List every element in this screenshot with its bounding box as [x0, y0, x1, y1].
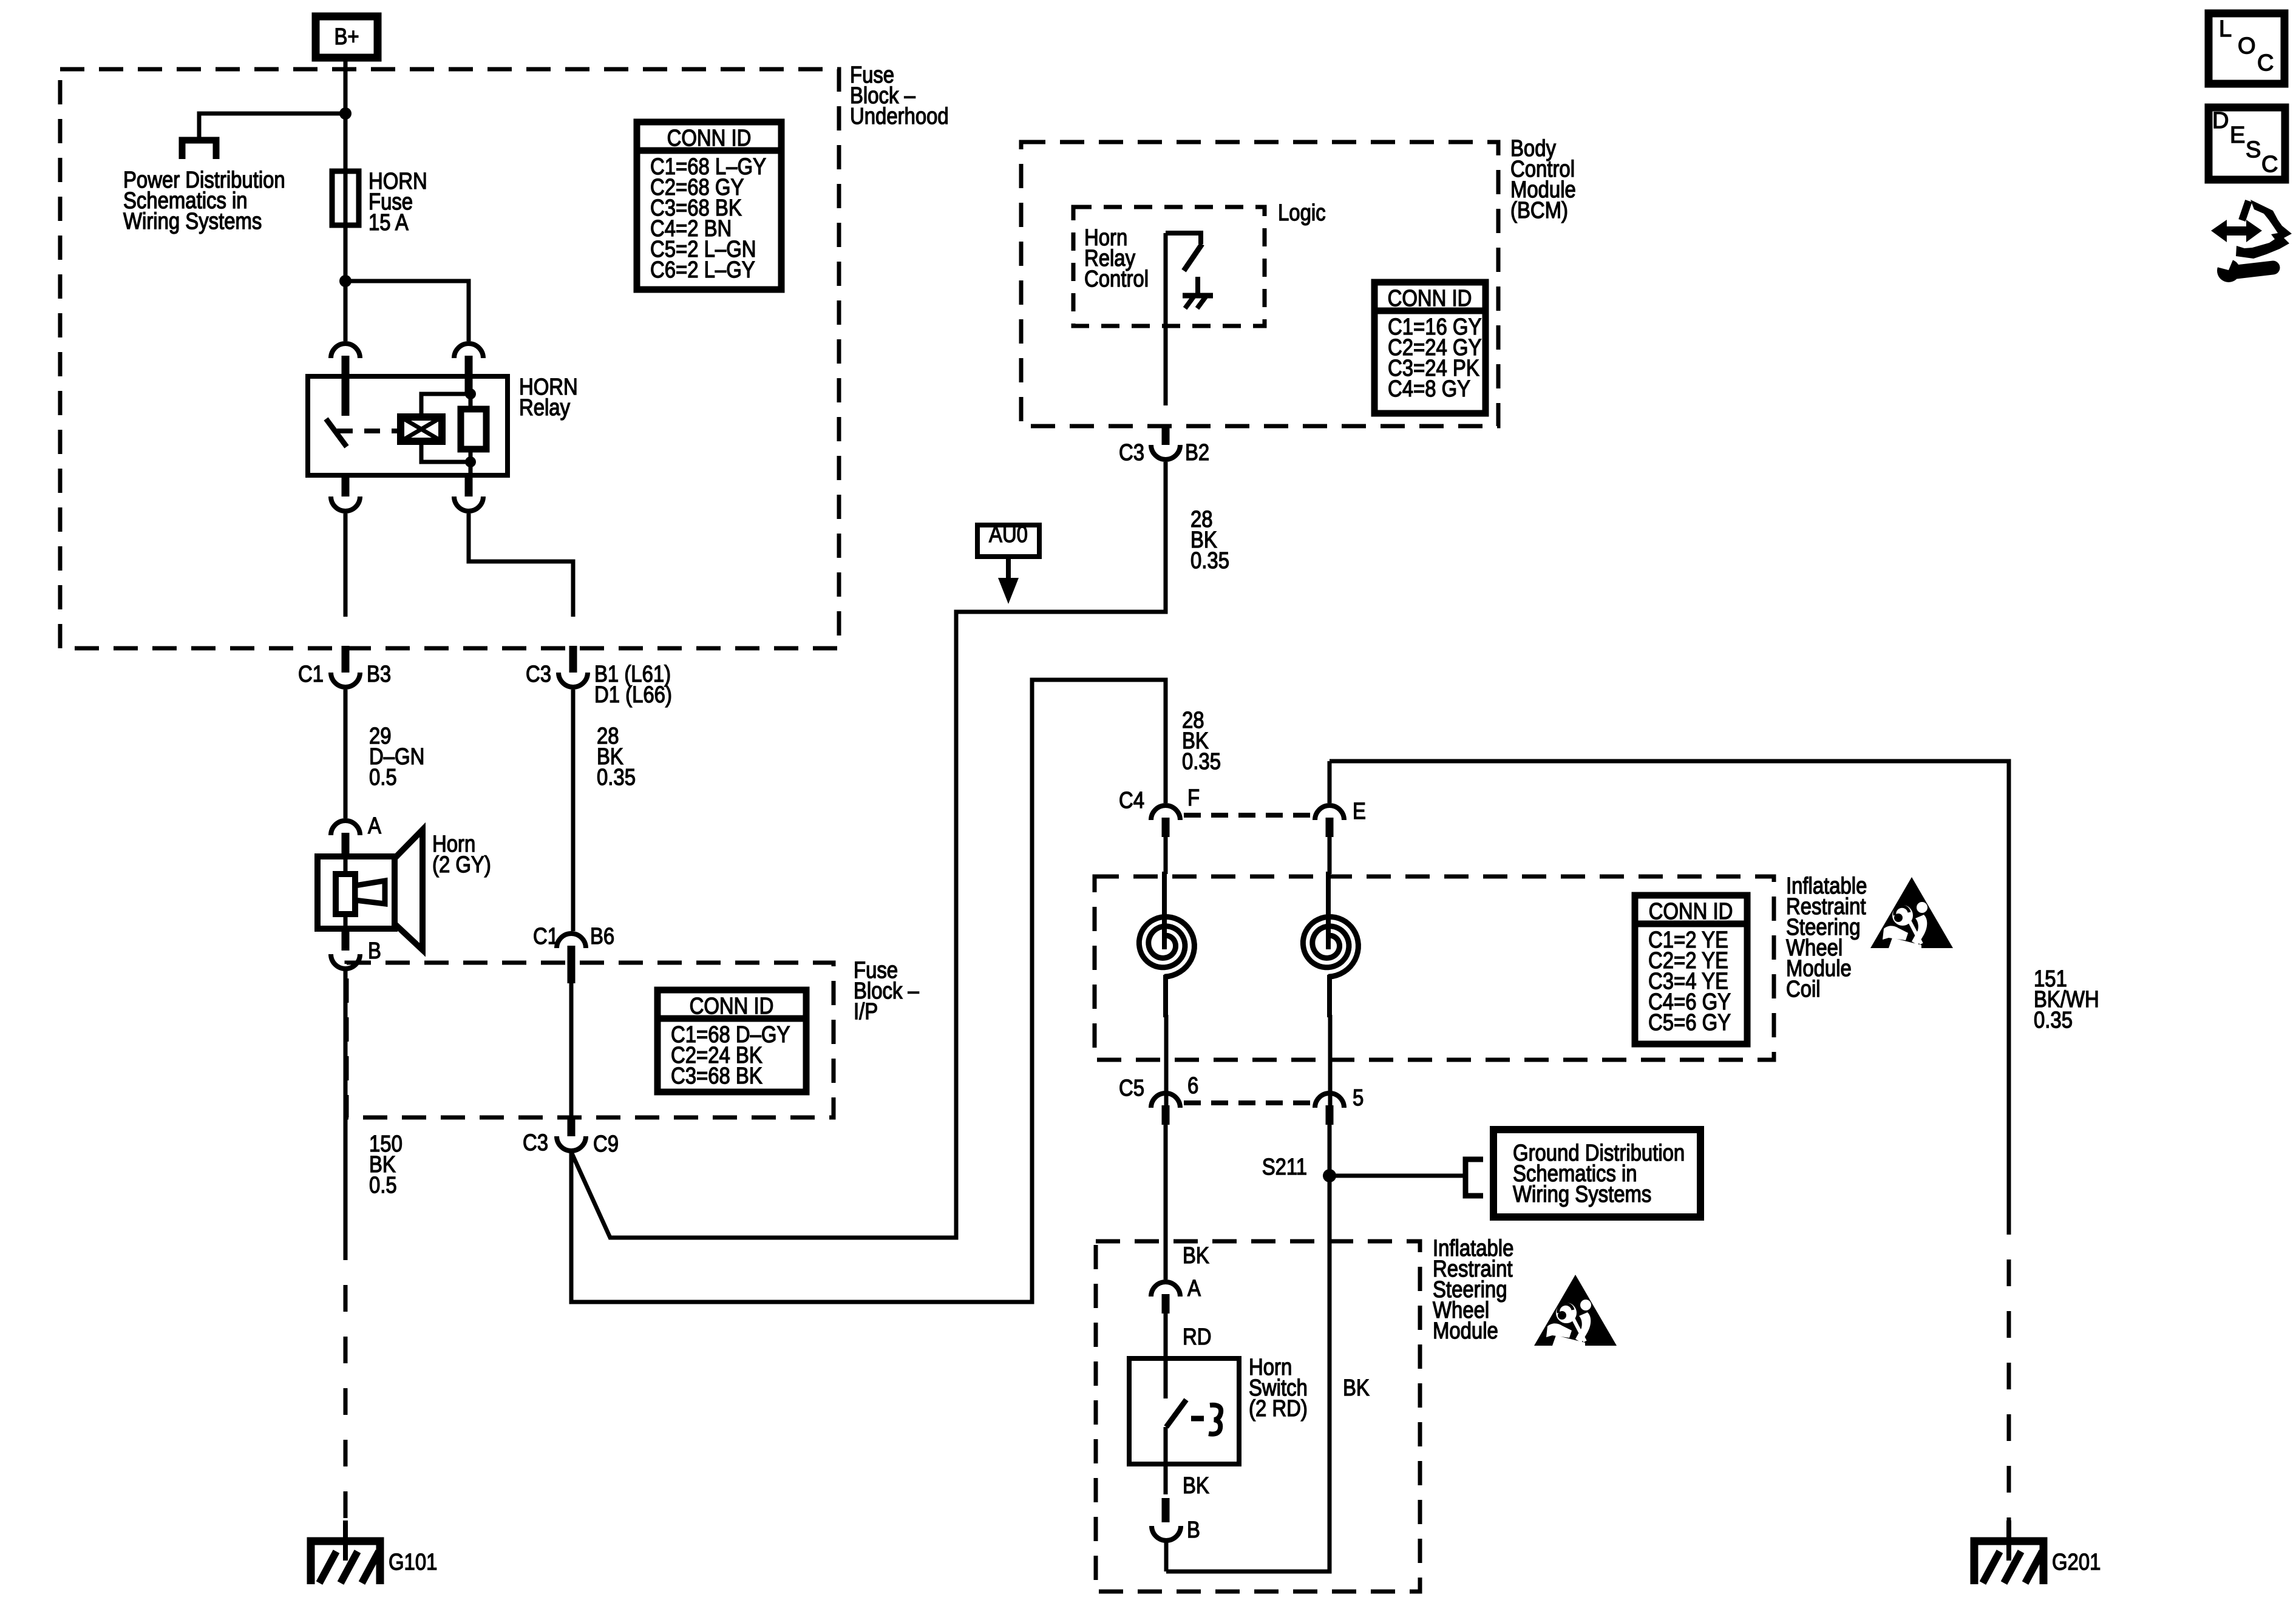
horn driver rect [336, 874, 355, 914]
relay pin 85 connector [465, 473, 473, 497]
relay resistor [461, 409, 486, 449]
svg-text:C9: C9 [593, 1131, 619, 1157]
body control module dashed box [1021, 142, 1498, 426]
IP conn id table [657, 990, 806, 1092]
AU0 option tag box [977, 525, 1039, 557]
wire S211 to ground distribution ref [1330, 1174, 1464, 1178]
connector C3 pin C9 [568, 1119, 576, 1136]
fuse block - underhood dashed box [60, 69, 839, 648]
horn switch blade [1166, 1400, 1186, 1427]
logic ground symbol [1195, 277, 1200, 296]
coil conn id table [1635, 895, 1747, 1044]
relay coil (X box) [401, 417, 442, 441]
svg-text:0.5: 0.5 [369, 765, 397, 790]
relay actuator dashed link [337, 429, 398, 433]
svg-text:B6: B6 [590, 924, 614, 949]
coil spiral right [1326, 872, 1331, 949]
wire B to bottom run [1164, 1541, 1169, 1571]
svg-text:Wiring Systems: Wiring Systems [123, 209, 262, 234]
wire E to spiral [1328, 837, 1332, 874]
coil connector pin 5 [1315, 1093, 1344, 1108]
svg-text:O: O [2238, 33, 2256, 59]
wire relay resistor top [469, 376, 473, 409]
svg-text:F: F [1187, 785, 1200, 811]
relay pin 86 connector [454, 344, 483, 358]
svg-text:Underhood: Underhood [850, 104, 949, 129]
horn switch box [1129, 1358, 1239, 1464]
navigation arrows icon [2211, 220, 2262, 242]
fuse block I/P dashed box [347, 963, 834, 1117]
svg-text:C4: C4 [1119, 788, 1144, 813]
horn speaker trapezoid [395, 830, 423, 950]
dashed connector line F-E [1184, 813, 1313, 818]
LOC icon box [2209, 13, 2284, 84]
steering wheel module coil dashed box [1095, 876, 1774, 1060]
svg-text:0.35: 0.35 [2034, 1008, 2073, 1033]
svg-text:AU0: AU0 [989, 522, 1028, 547]
svg-text:A: A [368, 813, 381, 839]
wire spiral to 5 [1328, 1015, 1333, 1107]
svg-text:C3: C3 [526, 662, 551, 687]
wire relay coil to C3 B1 [469, 514, 573, 617]
horn terminal A connector [331, 821, 360, 835]
svg-text:B2: B2 [1185, 440, 1209, 466]
relay pin 30 connector [331, 344, 360, 358]
horn relay box [308, 376, 508, 475]
wire coil bottom [421, 441, 470, 462]
svg-text:S211: S211 [1262, 1154, 1307, 1180]
svg-text:C5=6 GY: C5=6 GY [1648, 1010, 1731, 1036]
svg-text:CONN ID: CONN ID [1388, 286, 1472, 311]
BCM conn id table [1374, 282, 1486, 413]
svg-text:CONN ID: CONN ID [690, 994, 774, 1019]
svg-text:B: B [368, 938, 381, 964]
wire to power distribution reference [199, 114, 345, 138]
ground distribution bracket [1466, 1159, 1483, 1196]
wire 28 BK to C1 B6 [571, 690, 576, 931]
svg-text:(2 GY): (2 GY) [432, 852, 491, 878]
coil connector pin E [1315, 805, 1344, 820]
svg-text:CONN ID: CONN ID [1649, 899, 1733, 924]
svg-text:D1 (L66): D1 (L66) [594, 682, 672, 708]
horn switch terminal A connector [1151, 1282, 1180, 1297]
svg-text:B+: B+ [334, 24, 359, 50]
airbag triangle module [1534, 1275, 1617, 1346]
wire relay to C1 B3 [344, 514, 348, 617]
svg-text:E: E [2230, 123, 2245, 148]
wire logic to C3 B2 [1164, 233, 1168, 405]
svg-text:Coil: Coil [1786, 977, 1821, 1002]
wrench icon [2217, 259, 2240, 282]
svg-text:C1: C1 [533, 924, 559, 949]
logic driver switch symbol [1166, 233, 1201, 244]
svg-text:D: D [2212, 108, 2229, 134]
wire 151 BK/WH horizontal and down [1330, 761, 2009, 1208]
svg-text:0.35: 0.35 [597, 765, 636, 790]
airbag triangle coil [1870, 877, 1953, 948]
svg-text:0.5: 0.5 [369, 1173, 397, 1198]
svg-text:Logic: Logic [1278, 200, 1326, 226]
coil spiral left [1162, 872, 1167, 949]
svg-text:BK: BK [1183, 1243, 1209, 1269]
dashed connector line 6-5 [1184, 1100, 1313, 1105]
wire 28 BK C9 to coil F [571, 680, 1166, 1302]
wire C5-6 to horn switch A [1164, 1125, 1168, 1280]
junction coil-resistor top [465, 388, 476, 399]
wire inside IP fuse block [569, 983, 574, 1120]
wire E up to 151 BK/WH [1328, 761, 1332, 803]
svg-text:B3: B3 [367, 662, 391, 687]
svg-text:E: E [1353, 799, 1366, 824]
horn driver throat [355, 881, 385, 904]
connector C1 pin B3 [342, 646, 350, 673]
svg-text:C5: C5 [1119, 1076, 1144, 1101]
svg-text:5: 5 [1353, 1085, 1364, 1111]
splice S211 [1323, 1169, 1336, 1182]
svg-text:C1: C1 [298, 662, 324, 687]
wire 5 through S211 to switch B return [1166, 1125, 1330, 1571]
svg-text:15 A: 15 A [369, 210, 409, 236]
svg-text:0.35: 0.35 [1190, 548, 1229, 574]
svg-text:Module: Module [1433, 1318, 1498, 1344]
wire coil top [421, 394, 470, 417]
DESC icon box [2209, 107, 2285, 180]
horn switch contact hook [1209, 1405, 1221, 1434]
svg-text:S: S [2246, 137, 2261, 163]
logic dashed box [1073, 207, 1265, 326]
wire fuse to relay [344, 225, 348, 341]
svg-text:0.35: 0.35 [1182, 749, 1221, 775]
ground G201 [2006, 1520, 2011, 1561]
svg-text:L: L [2219, 16, 2232, 42]
coil connector C5 pin 6 [1151, 1093, 1180, 1108]
svg-text:B: B [1187, 1517, 1200, 1543]
steering wheel module dashed box [1096, 1241, 1420, 1592]
svg-text:C: C [2261, 152, 2278, 177]
wire 150 BK solid [344, 970, 348, 1233]
svg-text:BK: BK [1183, 1473, 1209, 1499]
wire A to switch blade [1164, 1314, 1168, 1398]
svg-text:RD: RD [1183, 1324, 1212, 1350]
horn switch terminal B connector [1162, 1498, 1170, 1522]
svg-text:A: A [1187, 1276, 1201, 1301]
horn terminal B connector [342, 926, 350, 951]
junction to power distribution [339, 107, 352, 120]
off-page reference symbol power distribution [182, 140, 216, 159]
coil connector C4 pin F [1151, 805, 1180, 820]
wire B+ to fuse [344, 59, 348, 171]
svg-text:6: 6 [1187, 1073, 1198, 1099]
svg-text:CONN ID: CONN ID [667, 126, 752, 151]
wire relay resistor bottom [469, 449, 473, 475]
wire 28 BK BCM B2 to splice C9 [571, 462, 1166, 1238]
relay pin 87 connector [342, 473, 350, 497]
wire spiral to C5 [1164, 1015, 1169, 1107]
svg-text:C3: C3 [523, 1130, 548, 1156]
junction coil-resistor bottom [465, 456, 476, 467]
connector C3 pin B2 [1162, 426, 1170, 445]
power feed B+ terminal [316, 16, 378, 58]
svg-text:Wiring Systems: Wiring Systems [1513, 1182, 1651, 1207]
svg-text:Control: Control [1084, 266, 1149, 292]
svg-text:(2 RD): (2 RD) [1249, 1396, 1308, 1422]
wire to horn terminal A [344, 690, 348, 818]
wire 151 BK/WH dashed to G201 [2007, 1208, 2011, 1542]
connector C3 pin B1/D1 [569, 646, 577, 673]
svg-text:C3: C3 [1119, 440, 1144, 466]
ground G101 [343, 1520, 348, 1561]
svg-text:C: C [2257, 50, 2274, 76]
horn switch dash [1191, 1416, 1204, 1422]
wire blade to B [1164, 1427, 1168, 1494]
svg-text:C6=2 L–GY: C6=2 L–GY [650, 257, 755, 283]
underhood conn id table [637, 122, 781, 290]
svg-text:G201: G201 [2052, 1550, 2101, 1575]
AU0 arrow [1006, 557, 1011, 583]
wire 150 BK dashed to G101 [344, 1233, 348, 1542]
svg-text:(BCM): (BCM) [1510, 198, 1568, 223]
svg-text:G101: G101 [389, 1550, 437, 1575]
horn body box [318, 856, 395, 929]
svg-text:C4=8 GY: C4=8 GY [1388, 376, 1470, 402]
fuse HORN 15A [332, 171, 359, 225]
svg-text:C3=68 BK: C3=68 BK [671, 1063, 763, 1089]
connector C1 pin B6 [557, 934, 586, 948]
svg-text:BK: BK [1343, 1375, 1370, 1401]
wire F to spiral [1164, 837, 1168, 874]
wire branch to relay coil pin [345, 281, 469, 341]
svg-text:I/P: I/P [854, 999, 878, 1025]
ground distribution reference box [1493, 1130, 1700, 1217]
relay switch blade [326, 419, 347, 447]
svg-text:Relay: Relay [519, 395, 570, 421]
junction to relay coil branch [339, 275, 352, 287]
